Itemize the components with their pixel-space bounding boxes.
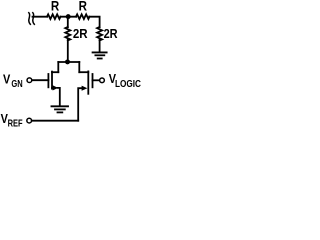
svg-text:R: R: [51, 0, 59, 14]
svg-text:R: R: [79, 0, 87, 14]
svg-text:REF: REF: [8, 119, 23, 130]
svg-text:2R: 2R: [73, 26, 88, 41]
svg-text:LOGIC: LOGIC: [115, 79, 141, 90]
svg-text:V: V: [3, 72, 11, 87]
svg-text:2R: 2R: [104, 26, 118, 41]
svg-text:GN: GN: [11, 79, 22, 90]
